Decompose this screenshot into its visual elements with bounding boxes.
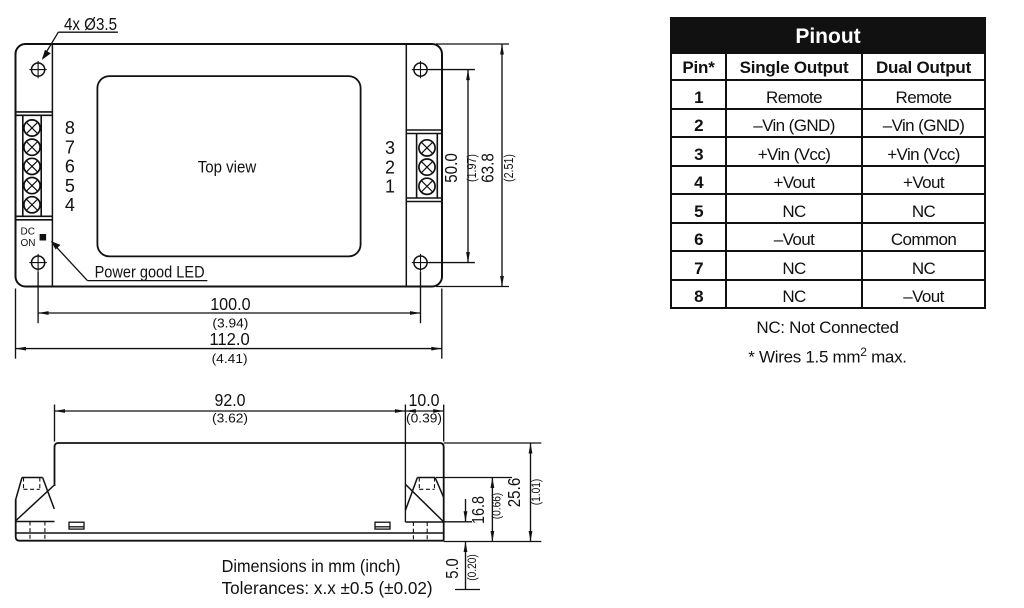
left flange divider line (51, 45, 53, 286)
dimension 112.0 horizontal (16, 289, 442, 359)
svg-text:Tolerances: x.x ±0.5 (±0.02): Tolerances: x.x ±0.5 (±0.02) (222, 578, 433, 598)
right terminal block frame (406, 130, 442, 202)
svg-text:5.0: 5.0 (442, 558, 462, 579)
right foot hidden screw rect (dashed) (413, 478, 434, 541)
label DC ON (21, 227, 36, 249)
svg-text:ON: ON (21, 238, 36, 249)
dimension 100.0 horizontal (38, 272, 420, 324)
note wires (670, 346, 985, 366)
left foot outline (16, 478, 55, 522)
svg-text:1: 1 (385, 177, 395, 197)
svg-text:(4.41): (4.41) (212, 352, 248, 366)
leader arrow to hole (42, 32, 118, 60)
svg-text:7: 7 (65, 137, 75, 157)
note NC (670, 319, 985, 336)
right foot outline (405, 478, 443, 523)
side view body outline (55, 443, 444, 541)
dimension 50.0 vertical (429, 70, 475, 263)
svg-text:Power good LED: Power good LED (95, 264, 205, 282)
mounting hole bottom-left (29, 254, 46, 271)
svg-text:3: 3 (385, 138, 395, 158)
module body outline (top view) (16, 44, 443, 287)
svg-text:(3.62): (3.62) (212, 412, 248, 426)
svg-text:(1.01): (1.01) (531, 479, 543, 506)
mounting hole top-right (412, 61, 429, 78)
base plate bottom and left profile (16, 500, 444, 541)
leader arrow to LED (51, 241, 208, 281)
svg-text:8: 8 (65, 118, 75, 138)
svg-text:4: 4 (65, 195, 75, 215)
svg-text:50.0: 50.0 (441, 153, 461, 183)
svg-text:25.6: 25.6 (504, 478, 524, 508)
pinout table (670, 17, 986, 309)
pin labels 3 2 1 (385, 138, 395, 196)
mounting hole bottom-right (412, 254, 429, 271)
right flange divider line (405, 45, 407, 286)
pin labels 8 7 6 5 4 (65, 118, 75, 215)
dimension 5.0 vertical (444, 499, 480, 590)
dimension 25.6 vertical (444, 443, 542, 542)
svg-text:(0.20): (0.20) (467, 554, 479, 581)
left terminal block frame (16, 112, 53, 220)
svg-text:6: 6 (65, 157, 75, 177)
right terminal screws 3..1 (419, 140, 435, 195)
svg-text:16.8: 16.8 (468, 496, 488, 524)
svg-text:92.0: 92.0 (215, 390, 246, 410)
svg-text:Dimensions in mm (inch): Dimensions in mm (inch) (222, 556, 401, 576)
left foot hidden screw rect (dashed) (24, 478, 45, 541)
base plate top line (16, 532, 444, 534)
svg-text:(0.39): (0.39) (406, 412, 442, 426)
right slot on base (375, 522, 390, 529)
inner module top face rounded rect (97, 76, 360, 256)
svg-text:(2.51): (2.51) (501, 154, 516, 182)
dimension 92.0 / 10.0 (55, 405, 444, 523)
left slot on base (69, 522, 84, 529)
dimension 63.8 vertical (436, 44, 509, 287)
dimension 16.8 vertical (436, 478, 541, 542)
svg-text:10.0: 10.0 (409, 390, 440, 410)
svg-text:Top view: Top view (198, 159, 257, 177)
svg-text:63.8: 63.8 (478, 153, 498, 183)
left terminal screws 8..4 (24, 120, 40, 213)
svg-text:2: 2 (385, 157, 395, 177)
svg-text:DC: DC (21, 227, 35, 238)
svg-text:(0.66): (0.66) (491, 493, 503, 520)
svg-text:5: 5 (65, 176, 75, 196)
svg-text:112.0: 112.0 (209, 329, 250, 349)
power good LED square (40, 234, 47, 241)
svg-text:100.0: 100.0 (210, 294, 251, 314)
svg-text:4x Ø3.5: 4x Ø3.5 (64, 14, 117, 34)
mounting hole top-left (29, 61, 46, 78)
